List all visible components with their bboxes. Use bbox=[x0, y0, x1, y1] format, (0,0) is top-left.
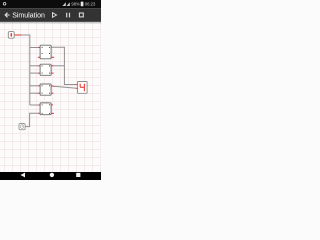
node red tip box2 in2 bbox=[38, 72, 40, 74]
toolbar pause icon bbox=[67, 13, 70, 18]
clock CLK1 bbox=[19, 124, 25, 130]
node red tip box4 in1 bbox=[38, 104, 40, 106]
toolbar bbox=[0, 8, 101, 22]
wire: bus to box3 in1 bbox=[30, 85, 39, 87]
nav back bbox=[20, 173, 25, 178]
node red lead box2 out bbox=[51, 65, 53, 67]
node red tip box2 in1 bbox=[38, 65, 40, 67]
node red tip box4 in2 bbox=[38, 112, 40, 114]
canvas background bbox=[0, 0, 101, 180]
status bar bbox=[0, 0, 101, 8]
grid lines vertical bbox=[5, 22, 101, 172]
wire: box2 out joins V2 bbox=[53, 65, 65, 67]
node red tip box1 in1 bbox=[38, 47, 40, 49]
relay U3 bbox=[40, 84, 51, 95]
wire: box4 in2 to clock bbox=[25, 113, 39, 126]
node red stub box1 in2 bbox=[38, 56, 40, 58]
wire: bus to box3 in2 bbox=[30, 92, 39, 94]
status wifi icon bbox=[67, 2, 70, 6]
node red stub box3 out2 bbox=[51, 92, 53, 94]
nav recents bbox=[76, 173, 80, 177]
node red stub box4 out1 bbox=[51, 104, 53, 106]
relay U2 bbox=[40, 64, 51, 75]
node red lead box3 out bbox=[51, 85, 54, 87]
status notification icon bbox=[3, 3, 6, 6]
svg-text:Simulation: Simulation bbox=[12, 13, 45, 20]
navigation bar bbox=[0, 172, 101, 180]
node red tip display pin1 bbox=[76, 84, 78, 86]
node red tip display pin2 bbox=[76, 87, 78, 89]
status battery bbox=[81, 2, 84, 7]
relay U1 bbox=[40, 45, 51, 59]
wire: bus to box4 in1 bbox=[30, 104, 39, 106]
relay U4 bbox=[40, 103, 51, 115]
wire: box1 out to V2 down to display pin1 bbox=[51, 47, 76, 84]
switch S1 bbox=[8, 32, 14, 39]
svg-text:98%: 98% bbox=[71, 2, 80, 7]
node red stub box4 out2 bbox=[51, 112, 54, 114]
wire: box3 out to display pin2 bbox=[54, 86, 77, 88]
toolbar play icon bbox=[53, 13, 57, 18]
node red stub box1 out2 bbox=[51, 56, 54, 58]
wire: bus to box1 in1 bbox=[30, 47, 39, 49]
node red tip box3 in2 bbox=[38, 92, 40, 94]
node red tip box3 in1 bbox=[38, 85, 40, 87]
toolbar back arrow bbox=[5, 13, 9, 18]
seven-segment display DS1 bbox=[78, 82, 88, 94]
wire: bus to box2 in1 bbox=[30, 65, 39, 67]
pin nubs box4 top bbox=[42, 102, 43, 103]
toolbar stop icon bbox=[79, 13, 83, 17]
wire: switch red lead bbox=[14, 34, 21, 36]
nav home bbox=[50, 173, 54, 177]
status signal icon bbox=[62, 2, 65, 6]
grid lines horizontal bbox=[0, 30, 101, 166]
node red stub box2 out2 bbox=[51, 72, 54, 74]
svg-text:06:23: 06:23 bbox=[85, 2, 96, 7]
wire: bus to box2 in2 bbox=[30, 72, 39, 74]
wire: switch output to bus bbox=[21, 35, 30, 105]
